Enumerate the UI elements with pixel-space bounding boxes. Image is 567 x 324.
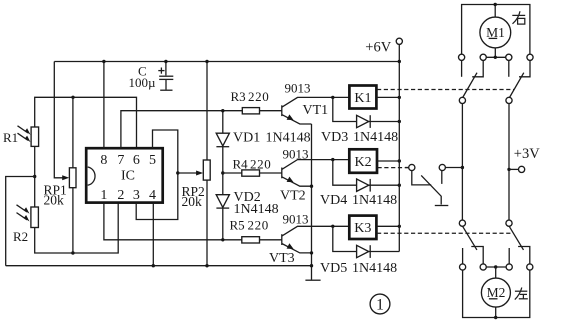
wire K1 to rail bbox=[376, 96, 399, 98]
node junction M2 top bbox=[494, 265, 497, 268]
svg-text:220: 220 bbox=[248, 89, 269, 104]
svg-text:7: 7 bbox=[117, 153, 124, 168]
wire K3 to rail bbox=[376, 225, 399, 227]
node junction VT1 collector / K1 / VD3 bbox=[331, 96, 334, 99]
svg-text:M1: M1 bbox=[486, 25, 505, 40]
wire RP1 bottom branch bbox=[72, 188, 74, 253]
node junction R1-R2 bbox=[33, 175, 36, 178]
svg-text:R1: R1 bbox=[3, 130, 18, 145]
wire S1b left contact stem bbox=[508, 60, 510, 76]
svg-text:6: 6 bbox=[133, 153, 140, 168]
node junction +3V tap bbox=[507, 168, 510, 171]
node junction RP2 wiper tap bbox=[176, 171, 179, 174]
wire M2 top between contacts bbox=[486, 266, 506, 268]
power switch blade to ground bbox=[421, 175, 441, 204]
ground main bbox=[305, 279, 320, 281]
relay K2 bbox=[349, 149, 377, 173]
wire S1a right contact bent stem bbox=[472, 60, 483, 76]
svg-text:R4: R4 bbox=[233, 156, 249, 171]
svg-text:220: 220 bbox=[250, 156, 271, 171]
wire tap to power switch bbox=[445, 167, 462, 169]
label left (zuo) character bbox=[515, 288, 528, 300]
svg-text:K3: K3 bbox=[354, 221, 371, 236]
wire VD3 branch bbox=[333, 97, 400, 121]
wire rail left drop to RP1 wiper bbox=[54, 62, 66, 178]
svg-text:VT2: VT2 bbox=[280, 189, 306, 204]
node junction top rail corner bbox=[398, 60, 401, 63]
node junction VT3 collector / K3 / VD5 bbox=[331, 225, 334, 228]
node junction bus / bottom rail bbox=[310, 264, 313, 267]
switch S1b contact left terminal bbox=[506, 54, 512, 60]
node junction VT3 emitter / bus bbox=[310, 251, 313, 254]
node junction RP2 / bottom rail bbox=[205, 264, 208, 267]
svg-text:VT1: VT1 bbox=[303, 103, 329, 118]
svg-text:100µ: 100µ bbox=[129, 75, 157, 90]
svg-text:1N4148: 1N4148 bbox=[352, 261, 397, 276]
node junction RP2 / top rail bbox=[205, 60, 208, 63]
wire M1 top loop bbox=[462, 5, 530, 55]
svg-text:20k: 20k bbox=[182, 194, 203, 209]
node junction RP1 bottom bbox=[71, 251, 74, 254]
switch S1a contact left terminal bbox=[459, 54, 465, 60]
switch S2a left bottom terminal bbox=[460, 264, 466, 270]
dashed link K3 bbox=[377, 232, 511, 234]
motor M1 bbox=[480, 17, 511, 48]
label M2 underline bbox=[489, 298, 498, 300]
capacitor C 100u bbox=[158, 62, 173, 91]
wire +6V top rail bbox=[54, 61, 399, 63]
wire RP2 bottom to rail bbox=[206, 180, 208, 266]
node junction chain / R4 wire bbox=[221, 171, 224, 174]
switch S1b blade bbox=[510, 73, 524, 98]
wire power switch stub bbox=[405, 167, 409, 169]
wire left branch to bottom rail bbox=[6, 177, 35, 266]
label M1 underline bbox=[489, 37, 498, 39]
svg-text:+6V: +6V bbox=[365, 39, 391, 55]
svg-text:3: 3 bbox=[133, 188, 140, 203]
ground power switch bbox=[435, 205, 449, 207]
wire R4 to VT2 base bbox=[223, 172, 282, 174]
wire IC pin 1 to R5 and VT3 base bbox=[104, 203, 282, 240]
node junction K1 / rail bbox=[398, 96, 401, 99]
photoresistor R2 bbox=[17, 205, 39, 228]
node junction VD4 / rail bbox=[398, 184, 401, 187]
wire diode chain vertical bbox=[222, 111, 224, 240]
node junction chain / R5 wire bbox=[221, 238, 224, 241]
node junction M2 bottom bbox=[494, 316, 497, 319]
svg-text:4: 4 bbox=[149, 188, 156, 203]
svg-text:5: 5 bbox=[149, 153, 156, 168]
wire VD5 branch bbox=[333, 226, 400, 251]
wire power switch right stem bbox=[441, 171, 443, 184]
switch S2a right bottom terminal bbox=[480, 264, 486, 270]
svg-text:2: 2 bbox=[117, 188, 124, 203]
wire R1 top to IC pin 6 bbox=[35, 97, 137, 148]
wire IC pin 4 to bottom rail bbox=[152, 203, 154, 266]
wire M2 top stem bbox=[495, 267, 497, 278]
wire bottom rail bbox=[6, 265, 312, 267]
switch S1a blade bbox=[463, 73, 477, 98]
svg-text:VD4: VD4 bbox=[320, 193, 347, 208]
switch S2b right bottom terminal bbox=[527, 264, 533, 270]
wire +6V rail vertical bbox=[398, 44, 400, 251]
svg-text:1N4148: 1N4148 bbox=[353, 130, 398, 145]
switch S2a pivot terminal bbox=[459, 220, 465, 226]
terminal +3V bbox=[519, 166, 525, 172]
transistor VT1 bbox=[282, 97, 350, 124]
diode VD4 bbox=[357, 179, 371, 192]
wire RP2 top to rail bbox=[206, 62, 208, 161]
switch S1b contact right terminal bbox=[527, 54, 533, 60]
wire M1 top stem bbox=[494, 5, 496, 18]
switch S2a blade bbox=[463, 226, 477, 250]
wire right pole vertical bbox=[508, 104, 510, 221]
wire +3V branch bbox=[509, 168, 519, 170]
relay K1 bbox=[349, 86, 376, 109]
potentiometer RP1 bbox=[62, 168, 76, 188]
svg-text:1: 1 bbox=[100, 188, 107, 203]
wire emitter bus bbox=[311, 124, 313, 280]
svg-text:9013: 9013 bbox=[285, 81, 311, 96]
svg-text:VD5: VD5 bbox=[320, 261, 347, 276]
node junction VT2 emitter / bus bbox=[310, 185, 313, 188]
svg-text:20k: 20k bbox=[44, 193, 65, 208]
dashed link K2 bbox=[378, 167, 409, 169]
node junction chain / R3 wire bbox=[221, 109, 224, 112]
transistor VT2 bbox=[282, 160, 350, 187]
motor M2 bbox=[481, 278, 510, 307]
wire S2a left contact stem bbox=[462, 248, 464, 264]
svg-text:IC: IC bbox=[121, 169, 135, 184]
wire S1a left contact stem bbox=[461, 60, 463, 76]
wire power switch left bent stem bbox=[412, 171, 431, 185]
wire IC pin 7 to R3 and VT1 base bbox=[121, 111, 282, 149]
photoresistor R1 bbox=[18, 126, 39, 147]
dashed link K1 bbox=[377, 89, 514, 91]
svg-text:+3V: +3V bbox=[514, 146, 540, 162]
wire M2 bottom stem bbox=[495, 307, 497, 317]
figure number 1 bbox=[370, 294, 390, 314]
switch S2b pivot terminal bbox=[506, 220, 512, 226]
switch S1a pole terminal bbox=[459, 97, 465, 103]
svg-text:1N4148: 1N4148 bbox=[234, 202, 279, 217]
terminal +6V bbox=[396, 38, 402, 44]
svg-text:R3: R3 bbox=[231, 89, 246, 104]
wire IC pin 5 loop to pin 3 and RP2 wiper bbox=[136, 130, 178, 220]
wire M2 bottom loop bbox=[463, 270, 530, 317]
wire S1b right contact bent stem bbox=[519, 60, 530, 76]
node junction M1 top bbox=[494, 3, 497, 6]
wire M1 bottom to switch contacts bbox=[483, 56, 509, 58]
switch S1b pole terminal bbox=[506, 97, 512, 103]
wire M1 bottom stem bbox=[494, 48, 496, 57]
node junction R1 wire / RP1 top bbox=[71, 96, 74, 99]
transistor VT3 bbox=[282, 226, 350, 253]
power switch left terminal bbox=[409, 164, 415, 170]
resistor R3 bbox=[242, 108, 259, 114]
svg-text:VT3: VT3 bbox=[269, 251, 295, 266]
resistor R5 bbox=[242, 237, 260, 243]
svg-text:1N4148: 1N4148 bbox=[266, 131, 311, 146]
wire VD4 branch bbox=[333, 160, 400, 186]
svg-text:K2: K2 bbox=[355, 155, 372, 170]
wire S2a right contact bent stem bbox=[471, 247, 483, 264]
node junction VD3 / rail bbox=[398, 120, 401, 123]
svg-text:R2: R2 bbox=[13, 229, 28, 244]
svg-text:VD1: VD1 bbox=[233, 131, 260, 146]
IC chip body bbox=[86, 148, 163, 202]
node junction pin8 / top rail bbox=[102, 60, 105, 63]
svg-text:9013: 9013 bbox=[283, 146, 309, 161]
node junction K3 / rail bbox=[398, 225, 401, 228]
svg-text:220: 220 bbox=[248, 217, 269, 232]
svg-text:K1: K1 bbox=[354, 91, 371, 106]
label right (you) character bbox=[512, 11, 525, 24]
wire K2 to rail bbox=[377, 160, 399, 162]
svg-text:R5: R5 bbox=[230, 217, 245, 232]
node junction VT2 collector / K2 / VD4 bbox=[331, 158, 334, 161]
svg-text:M2: M2 bbox=[487, 285, 506, 300]
svg-text:VD3: VD3 bbox=[321, 130, 348, 145]
diode VD5 bbox=[357, 245, 371, 258]
diode VD2 bbox=[216, 195, 229, 208]
node junction C / top rail bbox=[164, 60, 167, 63]
switch S1a contact right terminal bbox=[480, 54, 486, 60]
switch S2b left bottom terminal bbox=[506, 264, 512, 270]
wire IC pin 8 to +6V rail bbox=[103, 62, 105, 149]
diode VD1 bbox=[216, 133, 229, 147]
wire S2b left contact stem bbox=[508, 248, 510, 264]
svg-text:1N4148: 1N4148 bbox=[352, 193, 397, 208]
node junction M1 bottom bbox=[494, 56, 497, 59]
wire R2 bottom to IC pin 2 bbox=[35, 203, 119, 253]
relay K3 bbox=[349, 216, 376, 239]
node junction K2 / rail bbox=[398, 159, 401, 162]
power switch right terminal bbox=[439, 164, 445, 170]
wire left pole vertical bbox=[461, 104, 463, 221]
potentiometer RP2 bbox=[178, 160, 210, 180]
wire R1 bottom to R2 top bbox=[34, 146, 36, 207]
node junction pin4 / bottom rail bbox=[152, 264, 155, 267]
node junction left vertical tap bbox=[461, 166, 464, 169]
wire S2b right contact bent stem bbox=[518, 247, 530, 264]
svg-text:8: 8 bbox=[100, 153, 107, 168]
svg-text:9013: 9013 bbox=[283, 212, 309, 227]
switch S2b blade bbox=[509, 226, 523, 250]
svg-text:1: 1 bbox=[376, 297, 384, 314]
wire RP1 top branch bbox=[72, 97, 74, 168]
diode VD3 bbox=[357, 115, 371, 128]
resistor R4 bbox=[242, 170, 260, 176]
